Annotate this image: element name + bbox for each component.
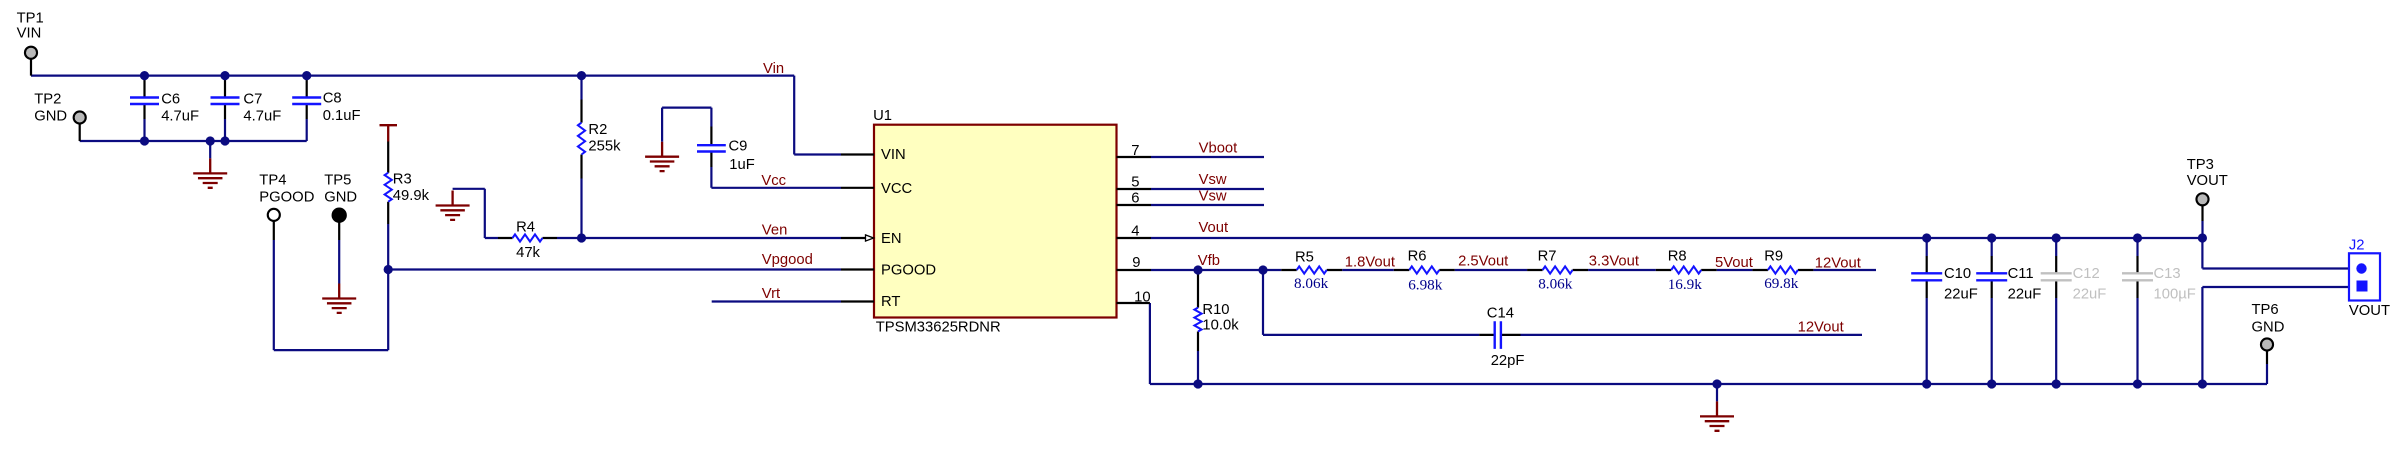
svg-text:8.06k: 8.06k [1538, 276, 1573, 293]
svg-text:0.1uF: 0.1uF [323, 108, 361, 124]
svg-text:C12: C12 [2073, 266, 2100, 282]
svg-text:GND: GND [2252, 320, 2285, 336]
svg-text:EN: EN [881, 231, 902, 247]
svg-text:Vcc: Vcc [761, 173, 786, 189]
svg-text:TP6: TP6 [2252, 302, 2279, 318]
svg-text:TP4: TP4 [259, 173, 286, 189]
svg-text:C11: C11 [2008, 266, 2034, 282]
svg-text:22uF: 22uF [1944, 287, 1978, 303]
svg-text:Vpgood: Vpgood [762, 252, 813, 268]
svg-text:U1: U1 [873, 108, 892, 124]
svg-text:6: 6 [1131, 191, 1139, 207]
svg-text:10.0k: 10.0k [1202, 317, 1239, 333]
svg-text:C10: C10 [1944, 266, 1971, 282]
svg-text:R4: R4 [516, 220, 535, 236]
svg-text:VIN: VIN [17, 26, 42, 42]
svg-text:10: 10 [1134, 289, 1150, 305]
svg-text:C8: C8 [323, 90, 342, 106]
svg-text:49.9k: 49.9k [393, 188, 430, 204]
svg-text:C9: C9 [729, 139, 748, 155]
svg-text:4.7uF: 4.7uF [243, 109, 281, 125]
svg-text:R9: R9 [1764, 248, 1783, 264]
svg-text:R7: R7 [1538, 248, 1557, 264]
svg-text:12Vout: 12Vout [1815, 256, 1861, 272]
svg-text:6.98k: 6.98k [1408, 277, 1443, 294]
svg-text:100µF: 100µF [2154, 287, 2196, 303]
svg-text:5: 5 [1131, 175, 1139, 191]
svg-text:TP3: TP3 [2187, 157, 2214, 173]
svg-text:1.8Vout: 1.8Vout [1345, 254, 1395, 270]
svg-text:GND: GND [324, 190, 357, 206]
svg-text:VCC: VCC [881, 181, 913, 197]
svg-text:3.3Vout: 3.3Vout [1589, 254, 1639, 270]
svg-text:R6: R6 [1408, 248, 1427, 264]
svg-text:C14: C14 [1487, 305, 1514, 321]
svg-text:VOUT: VOUT [2349, 303, 2390, 319]
svg-text:R3: R3 [393, 172, 412, 188]
svg-text:16.9k: 16.9k [1668, 276, 1703, 293]
svg-text:Vout: Vout [1199, 220, 1229, 236]
svg-text:1uF: 1uF [729, 157, 755, 173]
svg-text:Vin: Vin [763, 61, 784, 77]
svg-text:Ven: Ven [762, 222, 788, 238]
svg-text:47k: 47k [516, 245, 540, 261]
svg-text:255k: 255k [588, 139, 621, 155]
svg-text:12Vout: 12Vout [1798, 320, 1844, 336]
svg-text:9: 9 [1132, 255, 1140, 271]
svg-text:PGOOD: PGOOD [259, 190, 314, 206]
svg-text:2.5Vout: 2.5Vout [1458, 254, 1508, 270]
svg-text:RT: RT [881, 294, 900, 310]
svg-text:TPSM33625RDNR: TPSM33625RDNR [876, 319, 1001, 335]
svg-text:5Vout: 5Vout [1715, 255, 1753, 271]
svg-text:C7: C7 [243, 92, 262, 108]
svg-text:4: 4 [1131, 223, 1139, 239]
svg-text:4.7uF: 4.7uF [161, 109, 199, 125]
svg-text:Vfb: Vfb [1198, 253, 1220, 269]
svg-text:R5: R5 [1295, 250, 1314, 266]
svg-text:TP1: TP1 [17, 11, 44, 27]
svg-text:22pF: 22pF [1491, 353, 1525, 369]
svg-text:R2: R2 [588, 122, 607, 138]
svg-text:VIN: VIN [881, 147, 906, 163]
svg-text:R8: R8 [1668, 248, 1687, 264]
svg-text:PGOOD: PGOOD [881, 263, 936, 279]
svg-text:J2: J2 [2349, 237, 2365, 253]
svg-text:TP2: TP2 [34, 92, 61, 108]
svg-text:R10: R10 [1202, 302, 1229, 318]
svg-text:Vsw: Vsw [1199, 189, 1227, 205]
svg-text:22uF: 22uF [2073, 287, 2107, 303]
svg-text:22uF: 22uF [2008, 287, 2042, 303]
svg-text:Vboot: Vboot [1199, 140, 1238, 156]
svg-text:69.8k: 69.8k [1764, 275, 1799, 292]
svg-text:Vrt: Vrt [762, 286, 780, 302]
svg-text:Vsw: Vsw [1199, 172, 1227, 188]
svg-text:7: 7 [1131, 143, 1139, 159]
svg-text:C13: C13 [2154, 266, 2181, 282]
svg-text:8.06k: 8.06k [1294, 275, 1329, 292]
svg-text:GND: GND [34, 109, 67, 125]
svg-text:C6: C6 [161, 92, 180, 108]
svg-text:TP5: TP5 [324, 173, 351, 189]
svg-text:VOUT: VOUT [2187, 173, 2228, 189]
